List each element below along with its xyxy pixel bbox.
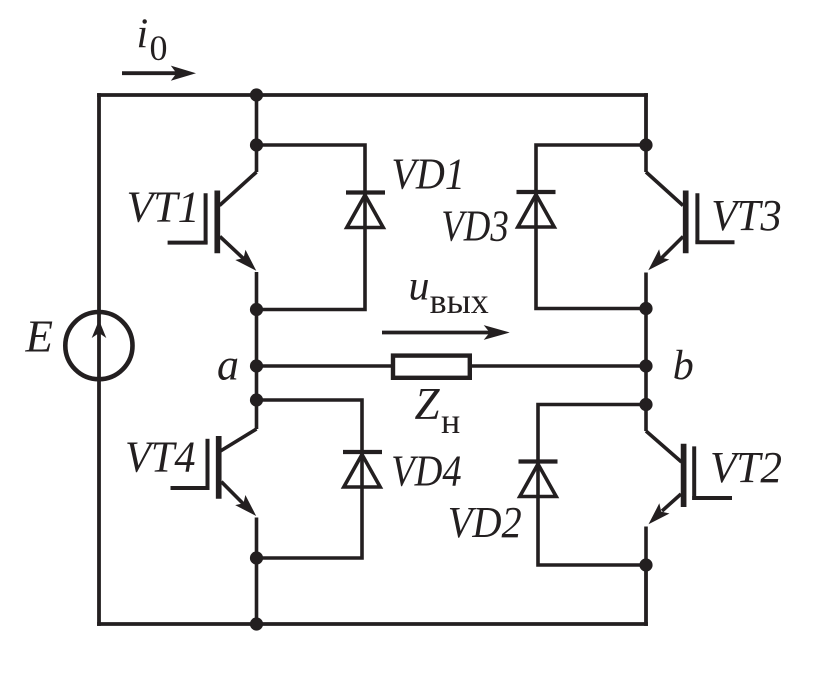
svg-text:VD3: VD3	[441, 201, 509, 251]
svg-text:Z: Z	[415, 379, 441, 429]
transistor VT3	[643, 145, 734, 309]
wire left side	[97, 93, 101, 626]
node VT4 emitter junction	[250, 551, 263, 564]
wire VD4 branch	[257, 400, 363, 558]
node VT1 collector junction	[250, 138, 263, 151]
svg-text:VT1: VT1	[127, 181, 200, 231]
node VT3 collector junction	[639, 138, 652, 151]
svg-text:0: 0	[150, 28, 168, 68]
diode VD4	[343, 452, 382, 487]
svg-text:a: a	[217, 341, 239, 390]
svg-text:н: н	[441, 401, 460, 441]
label u_out	[409, 264, 489, 322]
svg-text:VD4: VD4	[391, 446, 462, 496]
svg-text:E: E	[25, 312, 54, 362]
wire VD3 branch	[536, 145, 646, 309]
svg-text:b: b	[673, 343, 694, 389]
node VT1 emitter junction	[250, 303, 263, 316]
wire VD2 branch	[538, 405, 646, 566]
node bottom rail / left leg	[250, 617, 263, 630]
resistor Z_n	[393, 356, 470, 378]
label i0	[137, 12, 168, 69]
svg-text:i: i	[137, 12, 149, 58]
label Z_n	[415, 379, 461, 441]
wire right leg upper	[644, 93, 648, 145]
node top rail / left leg	[250, 88, 263, 101]
wire left leg upper	[255, 95, 259, 145]
wire left leg lower	[255, 558, 259, 624]
transistor VT1	[168, 145, 262, 310]
node VT2 collector junction	[639, 398, 652, 411]
node VT2 emitter junction	[639, 558, 652, 571]
current source E	[65, 312, 132, 379]
wire node a to node b	[257, 364, 647, 368]
svg-text:VT2: VT2	[710, 442, 782, 492]
svg-text:вых: вых	[430, 281, 489, 321]
svg-text:u: u	[409, 264, 430, 310]
diode VD1	[346, 193, 385, 228]
svg-text:VD1: VD1	[391, 148, 465, 198]
node VT4 collector junction	[250, 393, 263, 406]
diode VD2	[519, 462, 558, 497]
wire right leg lower	[644, 565, 648, 626]
wire left leg to node a	[255, 310, 259, 401]
wire bottom rail	[97, 622, 648, 626]
wire right leg to node b	[644, 309, 648, 405]
diode VD3	[517, 192, 556, 227]
wire VD1 branch	[257, 145, 366, 310]
wire top rail	[97, 93, 648, 97]
transistor VT4	[171, 400, 262, 558]
node b	[639, 359, 652, 372]
arrow i0	[122, 66, 196, 81]
svg-text:VT3: VT3	[711, 190, 782, 240]
arrow u_out	[382, 325, 510, 340]
node a	[250, 359, 263, 372]
node VT3 emitter junction	[639, 302, 652, 315]
svg-text:VD2: VD2	[448, 497, 522, 547]
svg-text:VT4: VT4	[125, 432, 196, 482]
transistor VT2	[643, 405, 732, 566]
